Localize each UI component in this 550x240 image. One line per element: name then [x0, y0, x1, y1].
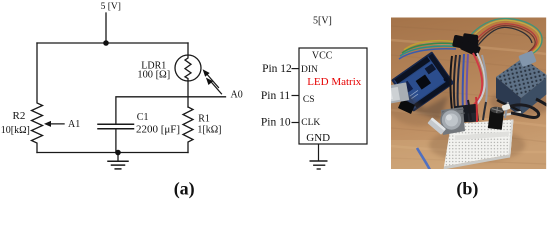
svg-text:CLK: CLK	[301, 118, 320, 128]
svg-text:100 [Ω]: 100 [Ω]	[137, 70, 170, 81]
svg-text:C1: C1	[137, 112, 149, 123]
svg-text:1[kΩ]: 1[kΩ]	[197, 125, 221, 136]
svg-text:A0: A0	[231, 90, 243, 101]
svg-text:LED Matrix: LED Matrix	[307, 76, 362, 88]
svg-text:DIN: DIN	[301, 65, 318, 75]
svg-text:GND: GND	[306, 132, 330, 144]
svg-text:VCC: VCC	[312, 51, 333, 62]
svg-text:10[kΩ]: 10[kΩ]	[1, 125, 30, 136]
svg-text:CS: CS	[303, 95, 315, 105]
svg-text:5[V]: 5[V]	[313, 15, 332, 26]
svg-text:(b): (b)	[456, 178, 478, 199]
svg-text:2200 [μF]: 2200 [μF]	[136, 124, 180, 136]
svg-text:R2: R2	[13, 110, 26, 122]
svg-text:5 [V]: 5 [V]	[101, 2, 121, 12]
svg-text:(a): (a)	[174, 178, 195, 199]
svg-text:R1: R1	[198, 114, 210, 125]
svg-text:Pin 11: Pin 11	[261, 90, 291, 102]
svg-text:A1: A1	[68, 119, 80, 130]
svg-text:Pin 12: Pin 12	[262, 63, 292, 75]
svg-text:Pin 10: Pin 10	[261, 117, 291, 129]
